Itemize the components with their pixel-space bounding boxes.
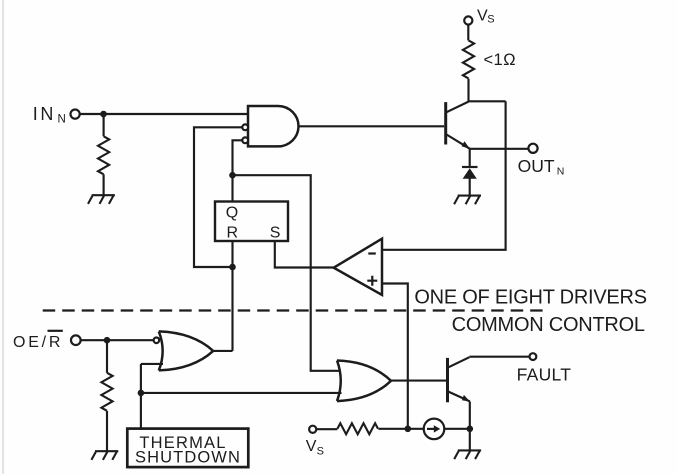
svg-text:COMMON CONTROL: COMMON CONTROL <box>452 314 645 336</box>
svg-text:V: V <box>306 438 317 455</box>
svg-text:<1Ω: <1Ω <box>484 51 517 69</box>
svg-text:SHUTDOWN: SHUTDOWN <box>135 449 241 467</box>
svg-text:S: S <box>270 225 281 242</box>
svg-text:Q: Q <box>226 205 238 222</box>
svg-text:ONE OF EIGHT DRIVERS: ONE OF EIGHT DRIVERS <box>414 286 646 308</box>
svg-text:FAULT: FAULT <box>517 364 572 384</box>
svg-text:OE/R: OE/R <box>13 334 63 351</box>
svg-text:S: S <box>487 13 494 25</box>
svg-text:S: S <box>317 446 324 458</box>
svg-text:N: N <box>557 165 565 177</box>
svg-text:N: N <box>58 114 66 126</box>
svg-text:IN: IN <box>33 104 56 124</box>
svg-text:OUT: OUT <box>518 156 555 176</box>
svg-text:R: R <box>227 225 239 242</box>
